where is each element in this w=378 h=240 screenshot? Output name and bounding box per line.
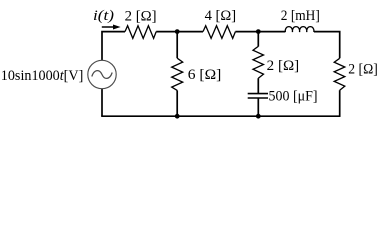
resistor R5 2ohm vertical right [334, 58, 345, 90]
wire branch2 upper [257, 32, 259, 47]
node top junction A [175, 29, 180, 34]
capacitor C1 500uF [248, 93, 268, 95]
wire between R2 and L1 [235, 31, 285, 33]
svg-text:2 [Ω]: 2 [Ω] [267, 58, 300, 74]
wire branch1 upper [176, 32, 178, 59]
resistor R1 2ohm horizontal [125, 26, 156, 39]
wire top-left segment [102, 32, 125, 60]
svg-text:2 [Ω]: 2 [Ω] [125, 8, 157, 24]
resistor R4 2ohm vertical [253, 46, 264, 78]
resistor R3 6ohm vertical [172, 58, 183, 90]
svg-text:2 [mH]: 2 [mH] [281, 8, 320, 24]
svg-text:2 [Ω]: 2 [Ω] [348, 62, 378, 78]
node bottom junction C [175, 114, 180, 119]
source V1 circle [88, 60, 116, 88]
svg-text:500 [μF]: 500 [μF] [269, 89, 318, 105]
wire bottom [101, 115, 340, 117]
source V1 sine [92, 71, 112, 79]
wire right rail lower [339, 90, 341, 116]
wire top-right segment [314, 32, 340, 59]
resistor R2 4ohm horizontal [203, 26, 235, 39]
wire branch1 lower [176, 90, 178, 116]
inductor L1 2mH [285, 27, 314, 32]
svg-text:10sin1000t[V]: 10sin1000t[V] [1, 68, 84, 84]
wire left rail lower [101, 89, 103, 116]
node bottom junction D [256, 114, 261, 119]
node top junction B [256, 29, 261, 34]
wire C1 to bottom [257, 98, 259, 116]
wire between R1 and R2 [156, 31, 203, 33]
svg-text:4 [Ω]: 4 [Ω] [205, 8, 237, 24]
svg-text:6 [Ω]: 6 [Ω] [188, 67, 222, 83]
svg-text:i(t): i(t) [93, 8, 114, 24]
wire R4 to C1 [257, 78, 259, 93]
current arrow i(t) [102, 26, 114, 28]
